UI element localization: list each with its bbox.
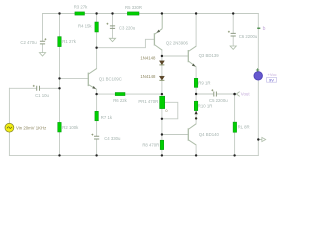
svg-text:R2 100k: R2 100k (62, 125, 79, 130)
svg-text:RL 8R: RL 8R (238, 125, 250, 130)
svg-text:C5 2200u: C5 2200u (209, 98, 228, 103)
svg-text:C3 220u: C3 220u (119, 25, 136, 30)
svg-text:C1 10u: C1 10u (35, 93, 49, 98)
svg-text:R10 1R: R10 1R (198, 104, 213, 109)
svg-text:R8 470R: R8 470R (142, 143, 159, 148)
svg-text:1N4148: 1N4148 (140, 56, 156, 61)
svg-text:R6 22k: R6 22k (113, 98, 127, 103)
svg-text:Vout: Vout (241, 92, 251, 97)
svg-text:1N4148: 1N4148 (140, 74, 156, 79)
svg-text:Q2 2N3906: Q2 2N3906 (166, 40, 189, 45)
svg-text:C4 330u: C4 330u (104, 136, 121, 141)
svg-text:Q4 BD140: Q4 BD140 (199, 132, 220, 137)
svg-text:R5 330R: R5 330R (125, 5, 142, 10)
svg-text:R4 15k: R4 15k (78, 24, 92, 29)
svg-text:R1 27k: R1 27k (62, 39, 76, 44)
svg-text:C6 2200u: C6 2200u (239, 34, 258, 39)
svg-text:Q1 BC109C: Q1 BC109C (99, 76, 122, 81)
svg-text:R9 1R: R9 1R (198, 80, 210, 85)
svg-text:R7 1k: R7 1k (101, 115, 113, 120)
svg-text:Vin 20mV 1KHz: Vin 20mV 1KHz (16, 126, 46, 131)
svg-text:9V: 9V (269, 78, 274, 83)
svg-text:Q3 BD139: Q3 BD139 (199, 53, 220, 58)
svg-text:PR1 470R: PR1 470R (138, 99, 158, 104)
svg-text:R3 27k: R3 27k (74, 5, 88, 10)
svg-text:b: b (263, 26, 266, 32)
svg-text:C2 470u: C2 470u (20, 40, 37, 45)
svg-text:+Vcc: +Vcc (268, 72, 277, 77)
